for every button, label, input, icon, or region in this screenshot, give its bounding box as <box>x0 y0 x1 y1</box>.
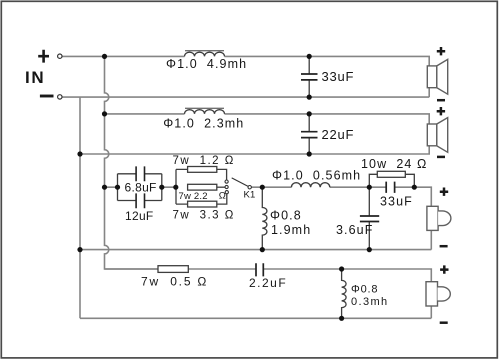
switch K1 arm <box>232 178 248 187</box>
capacitor C1 33uF plates <box>301 74 318 80</box>
speaker W2 minus <box>437 156 445 159</box>
wire: R1 leads <box>176 169 227 180</box>
svg-text:Φ1.0 4.9mh: Φ1.0 4.9mh <box>166 57 247 71</box>
svg-text:10w 24 Ω: 10w 24 Ω <box>361 157 428 171</box>
input terminal - circle <box>58 95 62 99</box>
speaker T1 minus <box>440 321 448 324</box>
inductor L4 1.9mh vertical <box>262 187 267 249</box>
node: bank left <box>173 185 178 190</box>
resistor R2 7w 2.2ohm <box>188 184 217 190</box>
capacitor C3 6.8uF / C4 12uF parallel bracket <box>118 166 162 208</box>
svg-text:22uF: 22uF <box>322 127 355 142</box>
svg-text:0.3mh: 0.3mh <box>351 296 389 308</box>
resistor R3 7w 3.3ohm <box>188 201 217 207</box>
node: -bus / mid return <box>77 247 82 252</box>
inductor L1 core bar <box>185 50 224 52</box>
inductor L1 4.9mh coil <box>185 52 225 56</box>
svg-text:7w 3.3 Ω: 7w 3.3 Ω <box>173 210 235 222</box>
node: bracket left <box>115 185 120 190</box>
svg-text:K1: K1 <box>244 189 256 200</box>
speaker W1 plus <box>437 47 445 55</box>
switch K1 contact 1 <box>225 180 228 183</box>
node: L4 bottom <box>260 247 265 252</box>
svg-text:Φ1.0 2.3mh: Φ1.0 2.3mh <box>163 117 244 131</box>
speaker M1 minus <box>440 245 448 248</box>
capacitor C2 22uF plates <box>301 132 318 138</box>
wire: woofer1 return <box>62 88 429 97</box>
node: C2 top <box>307 111 312 116</box>
speaker W2 plus <box>437 107 445 115</box>
capacitor C5 33uF horizontal plates <box>386 182 394 193</box>
wire: tweeter return <box>80 306 431 318</box>
inductor L5 0.3mh vertical <box>342 269 347 318</box>
wire: midrange return <box>80 230 431 249</box>
inductor L3 0.56mh coil <box>291 183 329 188</box>
svg-text:6.8uF: 6.8uF <box>125 181 157 195</box>
inductor L2 core bar <box>185 107 224 109</box>
svg-text:7w 1.2 Ω: 7w 1.2 Ω <box>173 155 235 167</box>
capacitor C1 33uF lead <box>308 56 310 97</box>
svg-text:Φ1.0 0.56mh: Φ1.0 0.56mh <box>272 169 361 183</box>
input plus sign <box>38 50 49 63</box>
svg-text:Φ0.8: Φ0.8 <box>270 208 302 222</box>
wire: R2 lead <box>217 186 225 188</box>
input terminal + circle <box>58 54 62 58</box>
resistor R4 10w 24ohm with leads <box>369 171 414 187</box>
speaker M1 (midrange dome) <box>427 206 451 230</box>
svg-text:3.6uF: 3.6uF <box>336 223 373 237</box>
node: C6 bottom <box>367 247 372 252</box>
wire: R3 leads <box>176 194 227 204</box>
svg-text:Ω: Ω <box>219 190 226 201</box>
node: L5 top <box>339 266 344 271</box>
resistor R5 7w 0.5ohm <box>158 266 188 273</box>
speaker T1 (tweeter dome) <box>426 282 450 306</box>
node: +bus / w1 feed <box>102 54 107 59</box>
node: -bus / w2 return <box>77 151 82 156</box>
capacitor C2 22uF lead <box>308 114 310 154</box>
wire: - bus vertical <box>79 97 81 318</box>
speaker M1 plus <box>440 188 448 196</box>
node: C1 top <box>307 54 312 59</box>
wire: woofer2 return <box>80 146 429 154</box>
node: RC right <box>412 185 417 190</box>
svg-text:7w 2.2: 7w 2.2 <box>179 191 208 202</box>
node: C2 bottom <box>307 151 312 156</box>
inductor L2 2.3mh coil <box>185 110 225 114</box>
svg-text:33uF: 33uF <box>322 69 355 84</box>
svg-text:12uF: 12uF <box>125 209 154 223</box>
switch K1 contact 2 <box>225 185 228 188</box>
wire: input + to woofer bus <box>62 56 429 66</box>
svg-text:7w 0.5 Ω: 7w 0.5 Ω <box>141 274 208 288</box>
svg-text:Φ0.8: Φ0.8 <box>351 284 378 296</box>
resistor R1 7w 1.2ohm <box>188 167 217 173</box>
node: +bus / w2 feed <box>102 111 107 116</box>
node: switch out <box>260 185 265 190</box>
speaker W2 (woofer) <box>427 118 447 153</box>
wire: + bus vertical with hops <box>105 56 159 269</box>
node: RC left <box>367 185 372 190</box>
wire: woofer2 feed <box>105 114 430 124</box>
wire: tweeter feed <box>105 269 432 282</box>
speaker W1 minus <box>437 99 445 102</box>
svg-text:2.2uF: 2.2uF <box>249 276 287 290</box>
wire: resistor bank left rail <box>175 169 177 204</box>
input minus sign <box>40 95 54 98</box>
switch K1 pole <box>248 186 251 189</box>
wire: midrange feed <box>105 187 432 206</box>
node: +bus / mid feed <box>102 185 107 190</box>
node: C1 bottom <box>307 95 312 100</box>
svg-text:IN: IN <box>25 68 45 87</box>
capacitor C7 2.2uF plates <box>256 263 263 276</box>
node: bracket right <box>159 185 164 190</box>
svg-text:33uF: 33uF <box>380 195 413 209</box>
capacitor C6 3.6uF <box>360 187 379 249</box>
svg-text:1.9mh: 1.9mh <box>271 223 311 237</box>
speaker W1 (woofer) <box>427 59 447 94</box>
speaker T1 plus <box>440 265 448 273</box>
node: L5 bottom <box>339 316 344 321</box>
switch K1 contact 3 <box>225 191 228 194</box>
